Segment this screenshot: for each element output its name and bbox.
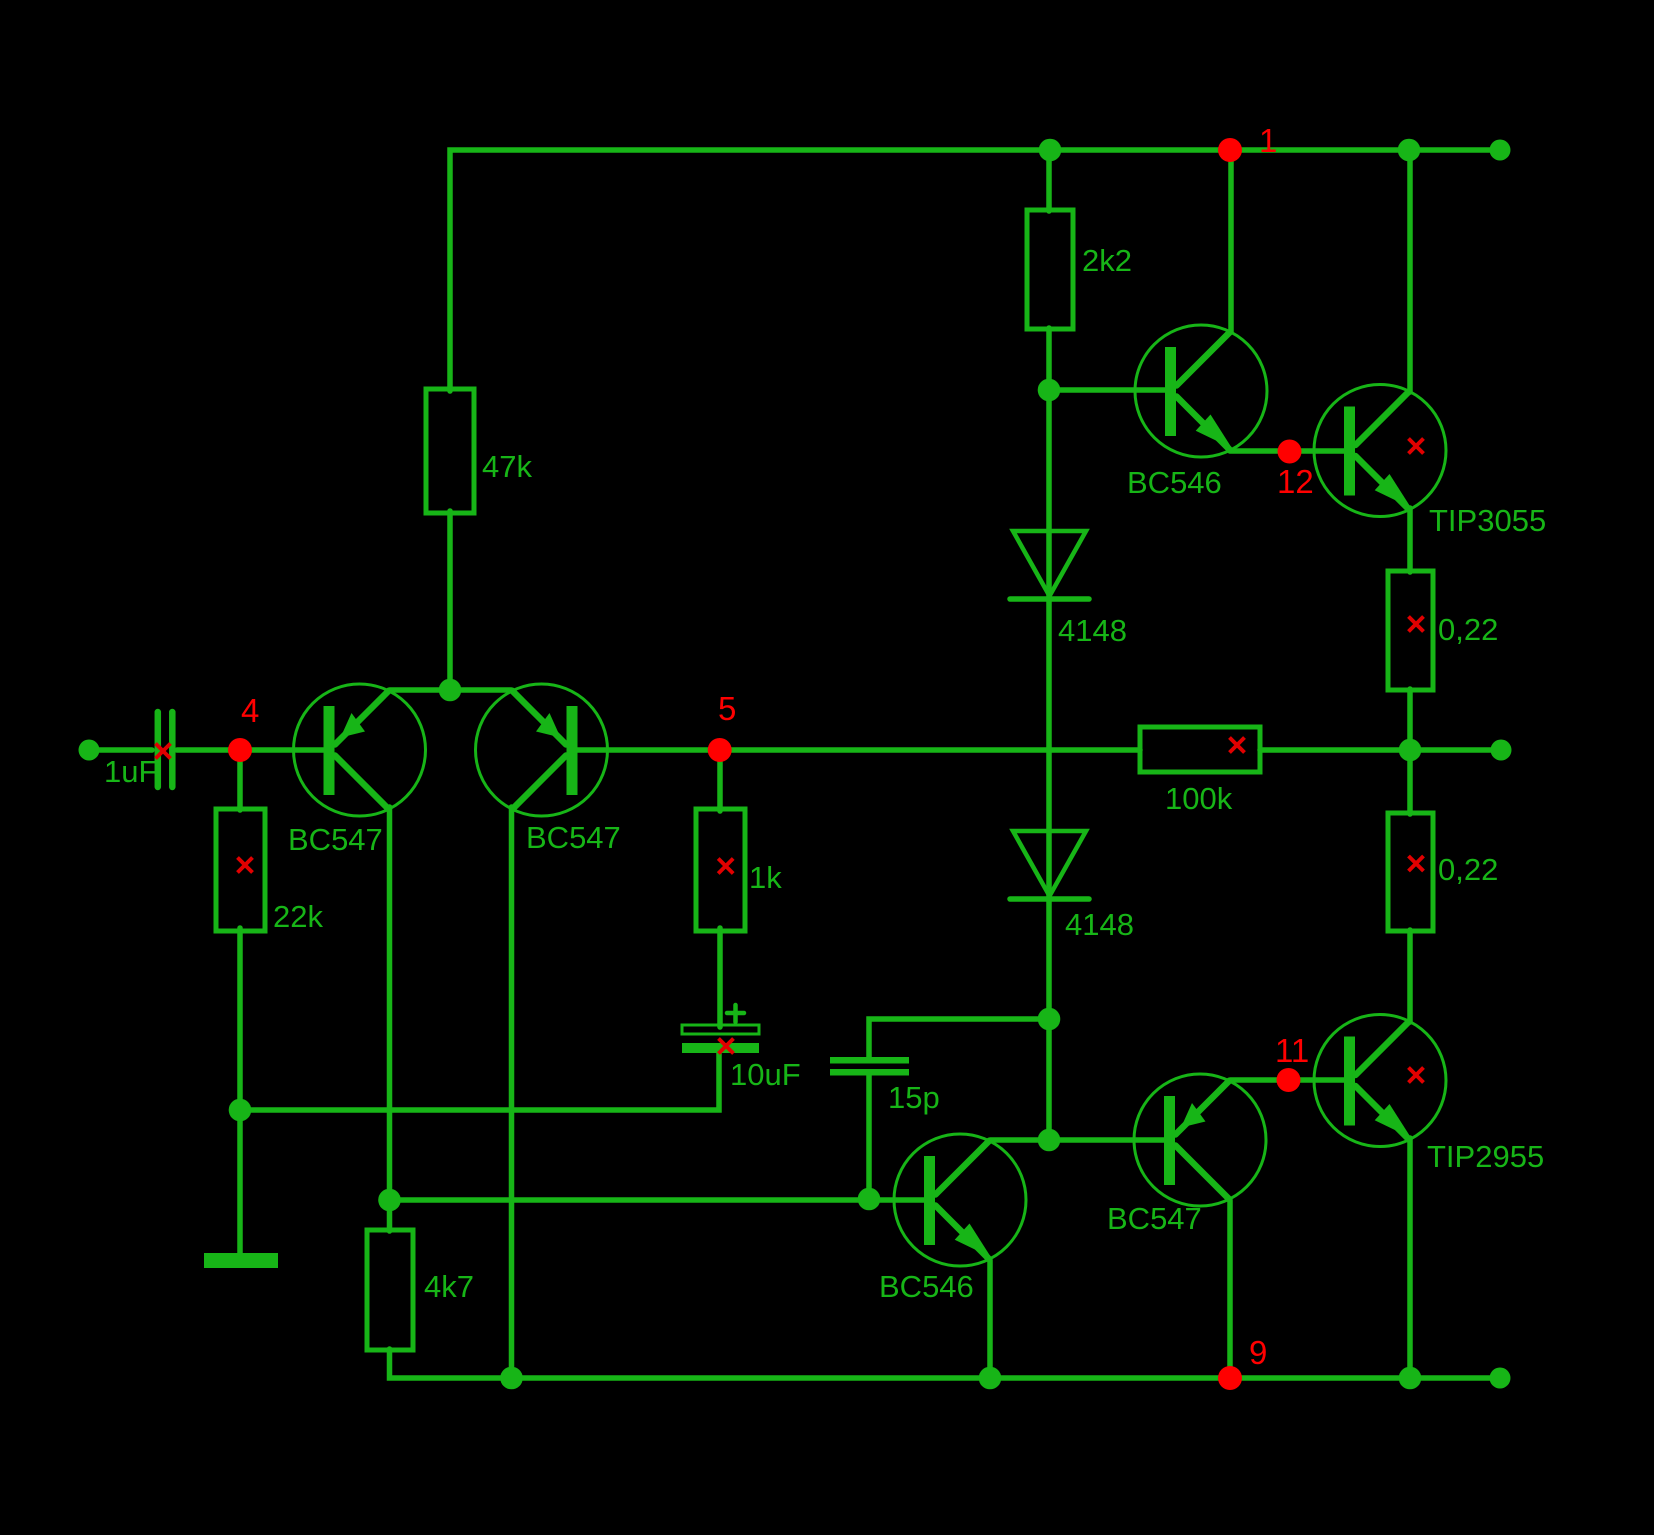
wire emitter junction to Q5 base	[390, 1197, 925, 1203]
wire output node to terminal	[1410, 747, 1501, 753]
x mark on C10uF	[719, 1039, 734, 1054]
wire R4k7 bottom + bottom rail	[390, 1349, 1501, 1378]
svg-text:1k: 1k	[749, 860, 782, 895]
node 4 dot	[228, 738, 252, 762]
junction output node	[1399, 739, 1422, 762]
wire junction to Q3 base	[1049, 387, 1165, 393]
wire node 5 down to R1k	[717, 750, 723, 811]
junction diode chain / Q6 base	[1038, 1129, 1061, 1152]
junction 47k / collectors	[439, 679, 462, 702]
junction Q1 emitter / R4k7	[378, 1189, 401, 1212]
wire Q5 collector to junction	[990, 1137, 1049, 1143]
node 9 dot	[1218, 1366, 1242, 1390]
transistor Q7 TIP2955	[1314, 1015, 1446, 1147]
ground	[204, 1253, 278, 1268]
svg-text:10uF: 10uF	[730, 1057, 801, 1092]
svg-text:4148: 4148	[1065, 907, 1134, 942]
resistor 0,22 upper	[1388, 571, 1433, 690]
svg-text:0,22: 0,22	[1438, 852, 1498, 887]
wire R1k bottom to C10uF	[717, 928, 723, 1027]
diode D2 4148	[1010, 831, 1089, 899]
svg-text:15p: 15p	[888, 1080, 940, 1115]
x mark on R1k	[718, 859, 733, 874]
resistor 47k	[426, 389, 474, 513]
svg-text:4148: 4148	[1058, 613, 1127, 648]
wire 47k bottom to collector junction	[447, 511, 453, 690]
wire diode chain vertical	[1046, 390, 1052, 1140]
wire junction to Q6 base	[1049, 1137, 1165, 1143]
terminal output right	[1491, 740, 1512, 761]
junction top rail / Q4 collector	[1398, 139, 1421, 162]
svg-text:4: 4	[241, 692, 259, 729]
wire Q2 emitter down to bottom rail	[509, 807, 515, 1378]
junction Q5 emitter / bottom rail	[979, 1367, 1002, 1390]
resistor 1k	[696, 809, 745, 931]
x mark on Q7 TIP2955	[1409, 1068, 1424, 1083]
svg-text:11: 11	[1275, 1032, 1309, 1069]
junction diode chain / C15p	[1038, 1008, 1061, 1031]
wire R100k right to output node	[1260, 747, 1410, 753]
transistor Q1 BC547	[294, 684, 426, 816]
terminal input	[79, 740, 100, 761]
resistor 4k7	[367, 1230, 413, 1350]
wire C15p top to diode chain	[869, 1019, 1049, 1057]
junction top rail / R2k2	[1039, 139, 1062, 162]
wire C10uF bottom to ground	[240, 1053, 719, 1255]
junction Q2 emitter / bottom rail	[500, 1367, 523, 1390]
wire R0,22b bottom to Q7 collector	[1407, 930, 1413, 1022]
x mark on R0,22 lower	[1409, 856, 1424, 871]
x mark on R22k	[238, 858, 253, 873]
wire C1 to Q1 base via node 4	[177, 747, 325, 753]
wire Q1 emitter down	[387, 807, 393, 1200]
transistor Q6 BC547	[1134, 1074, 1266, 1206]
wire Q7 emitter down to bottom rail	[1407, 1138, 1413, 1378]
svg-text:1: 1	[1259, 122, 1277, 159]
svg-text:4k7: 4k7	[424, 1269, 474, 1304]
capacitor 1uF	[158, 712, 173, 787]
junction Q7 emitter / bottom rail	[1399, 1367, 1422, 1390]
node 1 dot	[1218, 138, 1242, 162]
svg-text:BC546: BC546	[1127, 465, 1222, 500]
wire Q2 base to node 5	[577, 747, 720, 753]
transistor Q5 BC546	[894, 1134, 1026, 1266]
capacitor 10uF	[682, 1005, 759, 1053]
wire Q6 emitter down to node 9	[1227, 1200, 1233, 1378]
x mark on R0,22 upper	[1409, 617, 1424, 632]
svg-text:2k2: 2k2	[1082, 243, 1132, 278]
svg-text:TIP3055: TIP3055	[1429, 503, 1546, 538]
wire node 4 down to R22k	[237, 750, 243, 810]
wire output node down to R0,22b	[1407, 750, 1413, 814]
svg-text:12: 12	[1277, 463, 1314, 500]
transistor Q3 BC546	[1135, 325, 1267, 457]
x mark on C1uF	[156, 744, 171, 759]
wire top rail + left drop to 47k	[450, 150, 1500, 391]
wire R0,22a bottom to output node	[1407, 689, 1413, 750]
svg-text:22k: 22k	[273, 899, 323, 934]
node 11 dot	[1277, 1068, 1301, 1092]
svg-text:5: 5	[718, 690, 736, 727]
svg-text:BC547: BC547	[288, 822, 383, 857]
wire R22k bottom down	[237, 928, 243, 1110]
resistor 2k2	[1027, 210, 1073, 329]
wire top rail to R2k2	[1046, 150, 1052, 211]
wire input terminal to C1	[89, 747, 152, 753]
transistor Q2 BC547	[476, 684, 608, 816]
node 12 dot	[1278, 440, 1302, 464]
svg-text:BC547: BC547	[526, 820, 621, 855]
terminal bottom right	[1490, 1368, 1511, 1389]
wire Q5 emitter down to bottom rail	[987, 1260, 993, 1378]
svg-text:9: 9	[1249, 1334, 1267, 1371]
transistor Q4 TIP3055	[1314, 385, 1446, 517]
x mark on Q4 TIP3055	[1409, 439, 1424, 454]
wire Q3 emitter to Q4 base via node 12	[1230, 448, 1345, 454]
svg-text:100k: 100k	[1165, 781, 1233, 816]
resistor 22k	[216, 809, 265, 931]
svg-text:0,22: 0,22	[1438, 612, 1498, 647]
junction C15p / Q5 base wire	[858, 1188, 881, 1211]
diode D1 4148	[1010, 531, 1089, 599]
svg-text:47k: 47k	[482, 449, 532, 484]
svg-text:BC546: BC546	[879, 1269, 974, 1304]
resistor 0,22 lower	[1388, 813, 1433, 931]
wire junction to R4k7 top	[387, 1200, 393, 1231]
svg-text:BC547: BC547	[1107, 1201, 1202, 1236]
node 5 dot	[708, 738, 732, 762]
wire Q6 collector to Q7 base via node 11	[1230, 1077, 1345, 1083]
svg-text:TIP2955: TIP2955	[1427, 1139, 1544, 1174]
resistor 100k	[1140, 727, 1260, 772]
wire R2k2 bottom to junction	[1046, 328, 1052, 390]
terminal top right	[1490, 140, 1511, 161]
junction R22k / ground wire	[229, 1099, 252, 1122]
wire Q4 emitter to R0,22a	[1407, 508, 1413, 572]
wire top rail to Q4 collector	[1407, 150, 1413, 392]
wire collector link Q1-Q2	[390, 687, 512, 693]
x mark on R100k	[1230, 738, 1245, 753]
wire node 1 down to Q3 collector	[1228, 150, 1234, 332]
svg-text:1uF: 1uF	[104, 754, 157, 789]
junction R2k2 / Q3 base / diodes	[1038, 379, 1061, 402]
wire C15p bottom to base wire	[866, 1075, 872, 1200]
capacitor 15p	[830, 1057, 909, 1076]
wire node 5 to R100k	[720, 747, 1140, 753]
